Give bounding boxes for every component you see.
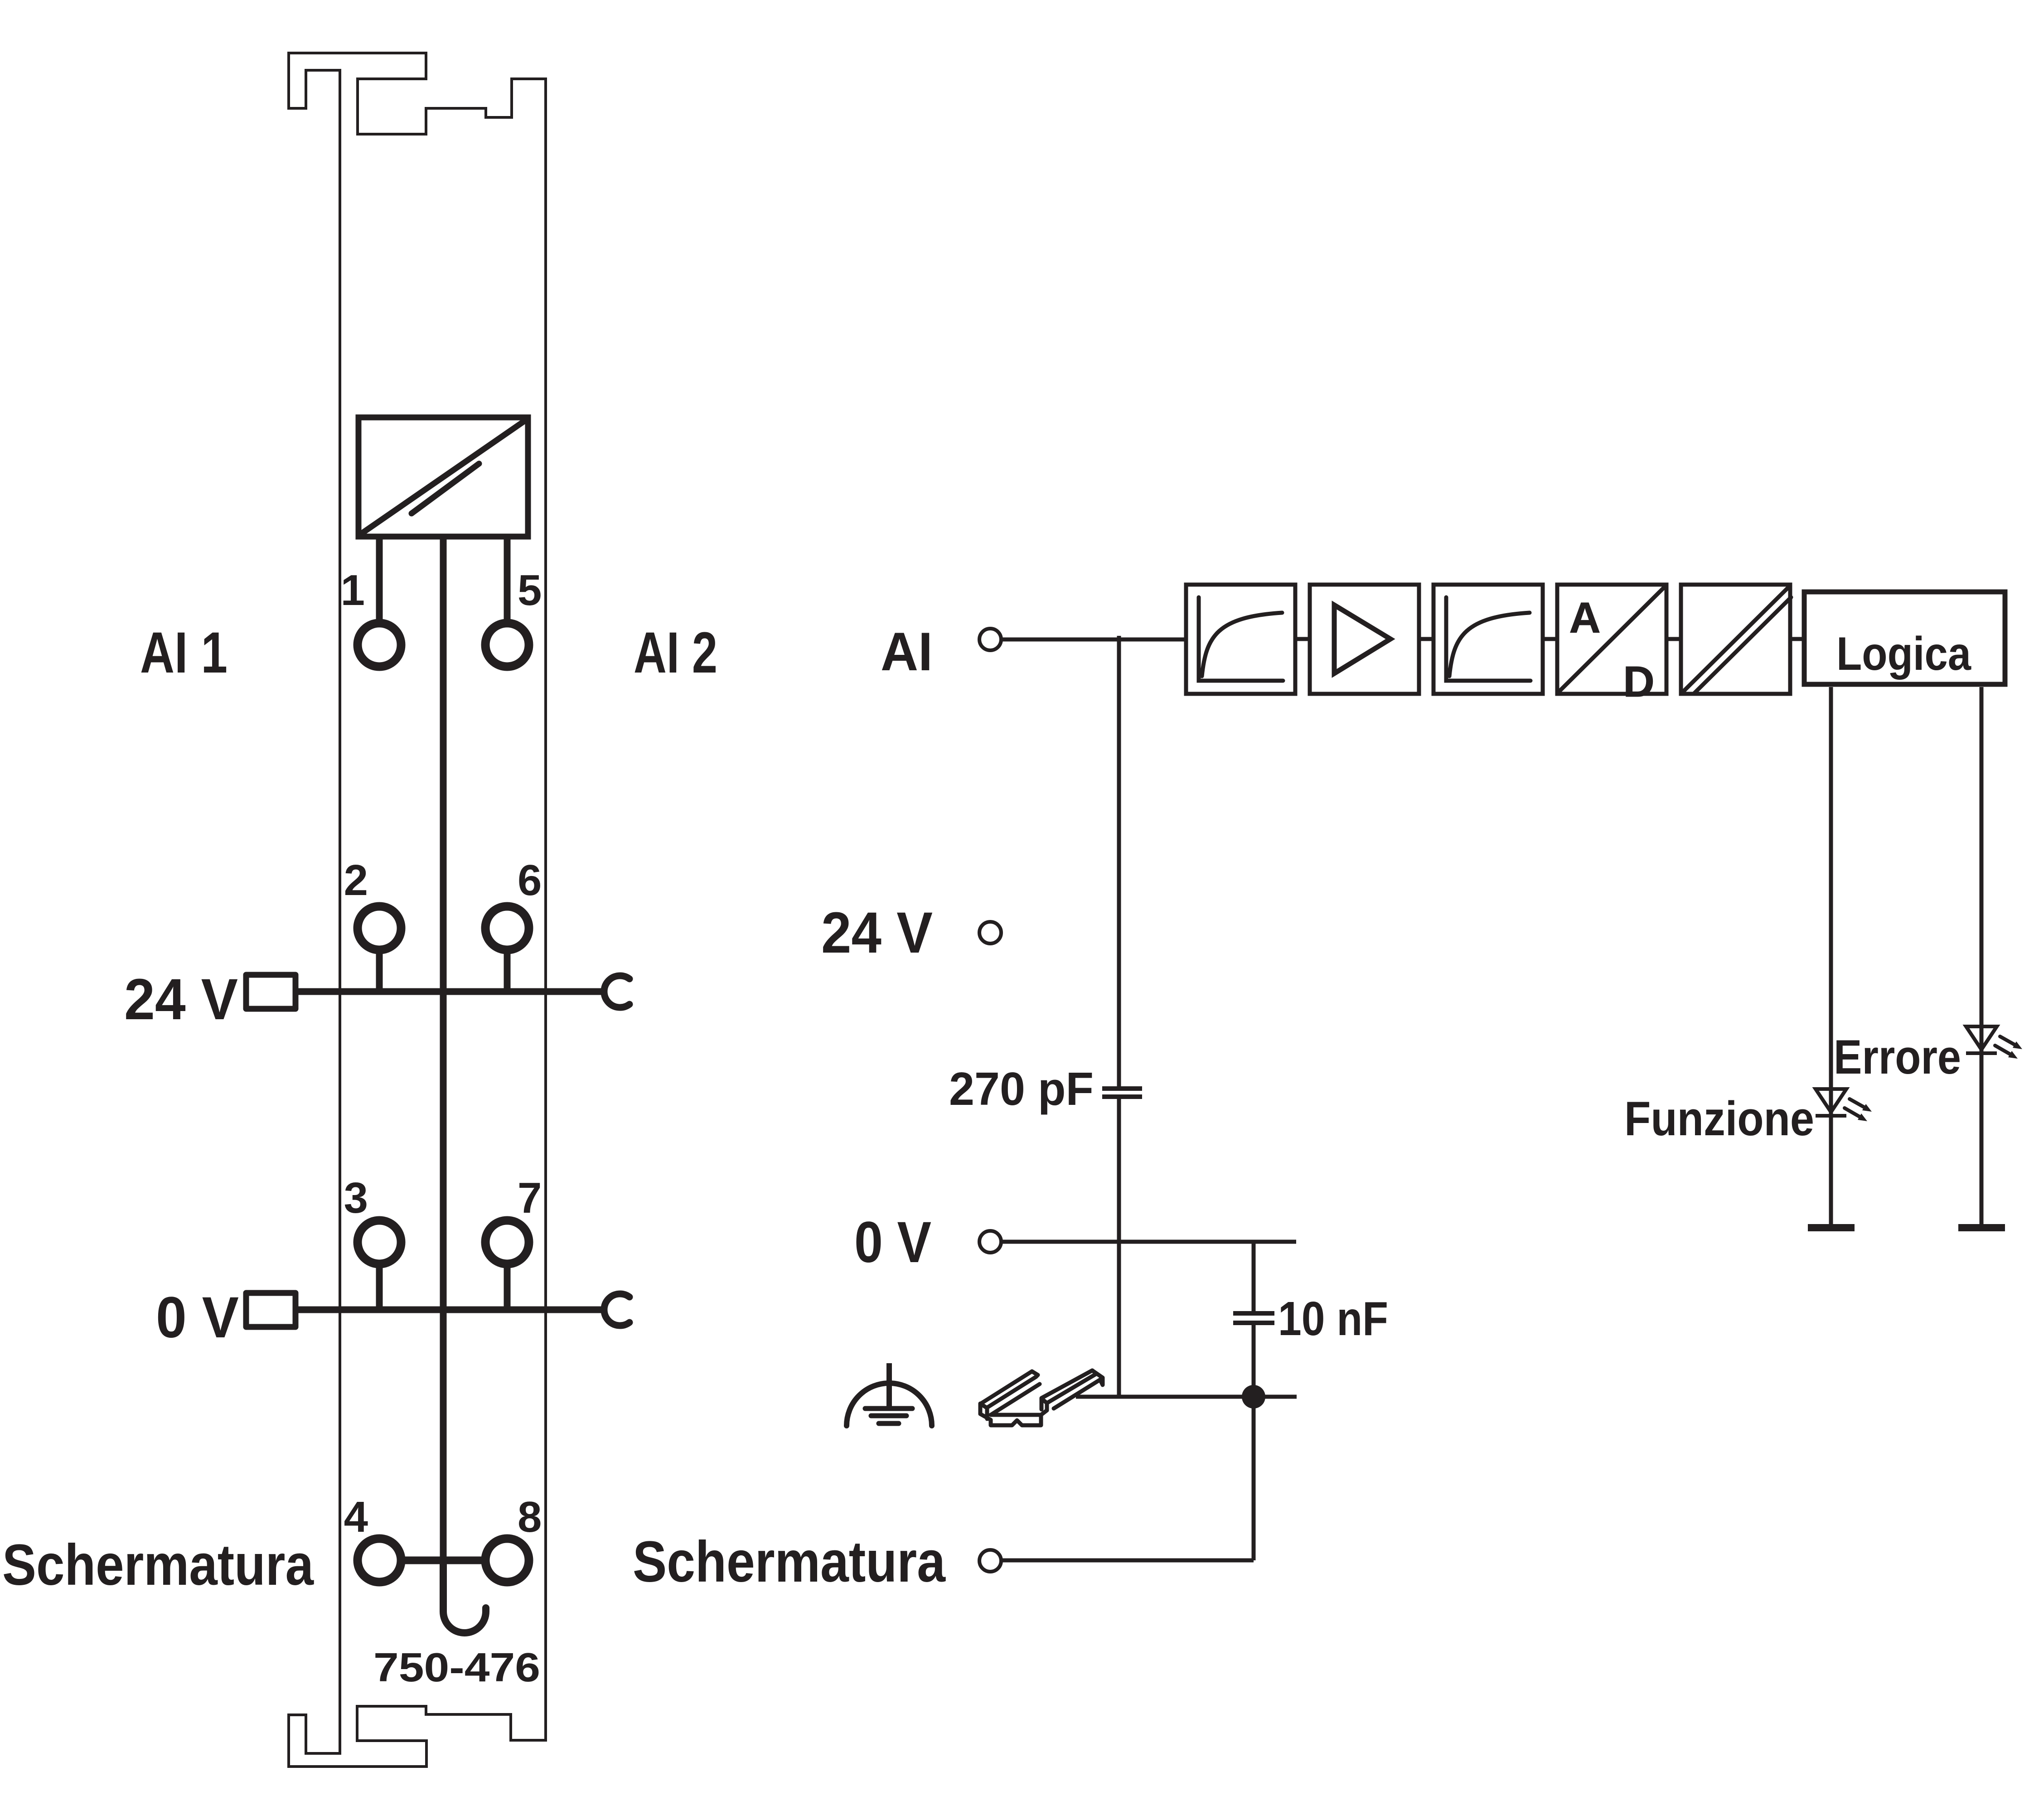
wire logic to Errore LED (1980, 687, 1984, 1224)
node 0 V terminal (979, 1231, 1001, 1253)
wire 10 nF branch lower (1252, 1325, 1256, 1560)
wire module centre line (440, 537, 447, 1560)
node AI input terminal (979, 629, 1001, 650)
capacitor C2 10 nF plates (1233, 1313, 1274, 1323)
svg-text:AI: AI (881, 621, 933, 682)
wire F1-amp (1297, 637, 1308, 641)
wire stem terminal 6 (504, 953, 511, 992)
ground bar Errore LED (1958, 1224, 2005, 1231)
svg-text:Schermatura: Schermatura (2, 1533, 314, 1597)
svg-text:10 nF: 10 nF (1278, 1292, 1388, 1346)
terminal 1 (358, 623, 401, 667)
shield bar terminals 4-8 (403, 1557, 483, 1564)
node Schermatura terminal (979, 1550, 1001, 1572)
wire F2-AD (1545, 637, 1555, 641)
svg-text:6: 6 (518, 856, 542, 905)
filter block F2 (1433, 585, 1543, 694)
wire 0 V (1001, 1240, 1296, 1244)
isolation converter box U1 (358, 417, 528, 537)
wire amp-F2 (1421, 637, 1432, 641)
svg-text:270 pF: 270 pF (949, 1063, 1094, 1115)
svg-text:0 V: 0 V (854, 1210, 931, 1275)
LED Funzione (1816, 1089, 1872, 1121)
shield hook (443, 1563, 486, 1633)
svg-text:24 V: 24 V (821, 900, 933, 965)
terminal 4 (358, 1539, 401, 1582)
terminal 6 (485, 906, 529, 950)
svg-text:AI 2: AI 2 (634, 620, 717, 685)
wire 10 nF branch upper (1252, 1242, 1256, 1311)
wire isolation-logic (1792, 637, 1804, 641)
module 750-476 outline (289, 53, 546, 1767)
svg-text:AI 1: AI 1 (140, 620, 228, 685)
wire AD-isolation (1668, 637, 1679, 641)
node 24 V terminal (979, 922, 1001, 944)
wire rail bus (1076, 1395, 1297, 1399)
24 V bus wire (295, 988, 602, 995)
junction dot shield node (1242, 1385, 1265, 1409)
terminal 5 (485, 623, 529, 667)
wire AI branch vertical (1117, 636, 1121, 1086)
wire stem terminal 7 (504, 1267, 511, 1310)
A/D converter block (1557, 585, 1666, 694)
logic block Logica (1804, 592, 2005, 684)
wire stem terminal 5 (504, 537, 511, 620)
svg-text:1: 1 (341, 566, 365, 615)
capacitor C1 270 pF plates (1102, 1089, 1142, 1097)
svg-text:3: 3 (344, 1174, 368, 1222)
wire Schermatura (1002, 1559, 1254, 1563)
svg-text:5: 5 (518, 566, 542, 615)
svg-text:24 V: 24 V (124, 967, 238, 1032)
svg-text:Schermatura: Schermatura (633, 1530, 946, 1594)
0 V field connector (246, 1293, 295, 1327)
svg-text:4: 4 (344, 1493, 368, 1541)
svg-text:2: 2 (344, 856, 368, 905)
24 V field connector (246, 975, 295, 1009)
LED Errore (1966, 1026, 2022, 1059)
svg-text:D: D (1623, 658, 1654, 706)
terminal 8 (485, 1539, 529, 1582)
0 V bus receptacle (604, 1294, 630, 1326)
terminal 3 (358, 1220, 401, 1264)
svg-text:750-476: 750-476 (373, 1645, 540, 1690)
filter block F1 (1186, 585, 1295, 694)
0 V bus wire (295, 1307, 602, 1313)
svg-text:A: A (1569, 594, 1600, 642)
wire AI input (1001, 638, 1184, 642)
svg-text:Funzione: Funzione (1624, 1091, 1814, 1146)
24 V bus receptacle (604, 976, 630, 1007)
terminal 7 (485, 1220, 529, 1264)
wire stem terminal 3 (376, 1267, 383, 1310)
svg-text:7: 7 (518, 1174, 542, 1222)
wire logic to Funzione LED (1829, 687, 1833, 1224)
wire stem terminal 1 (376, 537, 383, 620)
amplifier block (1310, 585, 1419, 694)
wire stem terminal 2 (376, 953, 383, 992)
ground symbol (847, 1363, 932, 1426)
svg-text:8: 8 (518, 1493, 542, 1541)
DIN rail icon (980, 1370, 1103, 1425)
isolation block (1681, 585, 1791, 694)
terminal 2 (358, 906, 401, 950)
svg-text:Errore: Errore (1834, 1030, 1961, 1084)
ground bar Funzione LED (1808, 1224, 1855, 1231)
svg-text:Logica: Logica (1836, 628, 1971, 680)
wire C1 to rail (1117, 1099, 1121, 1397)
svg-text:0 V: 0 V (156, 1285, 239, 1350)
